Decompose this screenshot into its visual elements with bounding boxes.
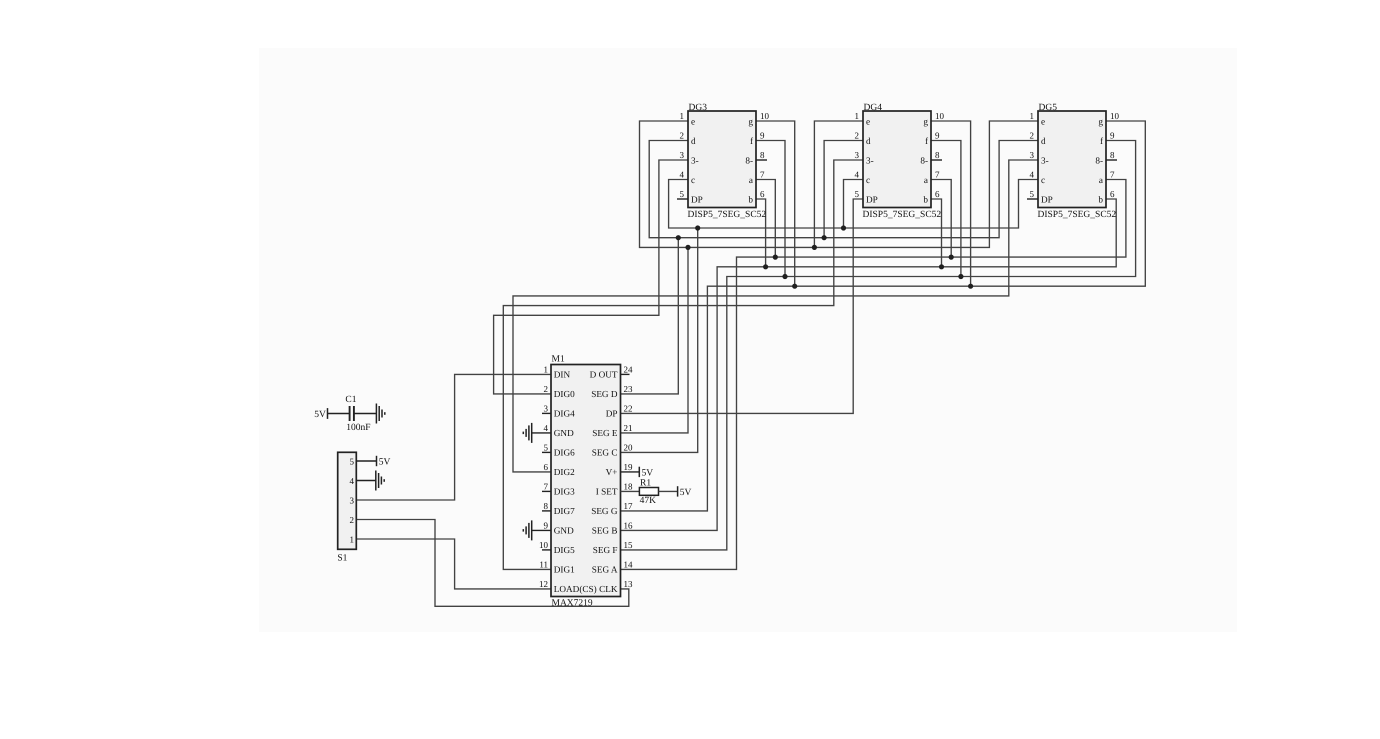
junction SEG F / DG3	[782, 274, 787, 279]
svg-text:I SET: I SET	[596, 487, 618, 497]
DG3 pin 9 (f)	[750, 130, 765, 146]
svg-text:100nF: 100nF	[346, 423, 370, 433]
svg-text:c: c	[1041, 175, 1045, 185]
svg-text:4: 4	[350, 476, 355, 486]
ground at M1 pin 9	[523, 520, 531, 540]
svg-text:DG3: DG3	[689, 103, 708, 113]
svg-text:3-: 3-	[691, 155, 699, 165]
DG4 pin 4 (c)	[855, 169, 871, 185]
svg-text:DG4: DG4	[864, 103, 883, 113]
DG3 pin 8 (8-)	[745, 150, 767, 166]
svg-text:g: g	[923, 116, 928, 126]
junction SEG F / DG4	[958, 274, 963, 279]
DG4 pin 3 (3-)	[855, 150, 874, 166]
svg-text:1: 1	[350, 534, 355, 544]
junction SEG B / DG3	[763, 264, 768, 269]
svg-text:d: d	[691, 136, 696, 146]
wire net SEG A branch to DG3 a	[756, 180, 775, 258]
svg-text:4: 4	[855, 169, 860, 179]
display DG5 DISP5_7SEG_SC52 body	[1038, 111, 1106, 208]
DG4 pin 9 (f)	[925, 130, 940, 146]
svg-text:3-: 3-	[1041, 155, 1049, 165]
wire net SEG D branch to DG4 d	[824, 141, 863, 238]
M1 pin 15 (SEG F)	[593, 540, 633, 555]
DG5 pin 4 (c)	[1030, 169, 1046, 185]
svg-text:16: 16	[624, 520, 634, 530]
svg-text:5: 5	[544, 442, 549, 452]
svg-text:SEG A: SEG A	[592, 565, 618, 575]
svg-text:3: 3	[350, 495, 355, 505]
wire net SEG F main (M1 pin15 to DG5 f)	[621, 141, 1136, 550]
wire M1 pin 4 to ground	[532, 432, 551, 434]
svg-text:19: 19	[624, 462, 634, 472]
svg-text:3: 3	[680, 150, 685, 160]
svg-text:7: 7	[760, 169, 765, 179]
M1 pin 1 (DIN)	[544, 364, 571, 379]
svg-text:d: d	[1041, 136, 1046, 146]
wire M1 pin 9 to ground	[532, 529, 551, 531]
svg-text:c: c	[691, 175, 695, 185]
M1 pin 18 (I SET)	[596, 481, 633, 496]
svg-text:R1: R1	[640, 478, 651, 488]
wire net SEG B main (M1 pin16 to DG5 b)	[621, 199, 1117, 530]
M1 pin 17 (SEG G)	[591, 501, 633, 516]
svg-text:a: a	[749, 175, 753, 185]
svg-text:GND: GND	[554, 526, 574, 536]
DG3 pin 6 (b)	[748, 189, 765, 205]
display DG4 DISP5_7SEG_SC52 body	[863, 111, 931, 208]
svg-text:SEG E: SEG E	[592, 428, 618, 438]
junction SEG G / DG4	[968, 284, 973, 289]
svg-text:a: a	[924, 175, 928, 185]
power 5V at C1	[314, 408, 327, 420]
svg-text:DP: DP	[691, 194, 703, 204]
junction SEG E / M1	[685, 245, 690, 250]
DG4 pin 8 (8-)	[920, 150, 942, 166]
svg-text:CLK: CLK	[599, 584, 618, 594]
DG3 pin 5 (DP)	[677, 189, 703, 205]
svg-text:DIG5: DIG5	[554, 545, 575, 555]
svg-text:D OUT: D OUT	[590, 370, 618, 380]
junction SEG A / DG3	[773, 255, 778, 260]
DG4 pin 6 (b)	[923, 189, 940, 205]
wire R1 to 5V	[659, 490, 678, 492]
M1 pin 7 (DIG3)	[542, 481, 575, 496]
svg-text:DG5: DG5	[1039, 103, 1058, 113]
svg-text:g: g	[748, 116, 753, 126]
svg-text:7: 7	[544, 481, 549, 491]
svg-text:5V: 5V	[680, 488, 692, 498]
svg-text:DIG2: DIG2	[554, 467, 575, 477]
wire net DIN (S1 pin3 to M1 pin1)	[356, 374, 551, 500]
svg-text:8-: 8-	[745, 155, 753, 165]
junction SEG C / M1	[695, 225, 700, 230]
S1 pin 3	[350, 495, 355, 505]
svg-text:DP: DP	[1041, 194, 1053, 204]
wire net DIG0 (M1 pin2 to DG3 pin3)	[494, 160, 688, 394]
svg-text:3: 3	[855, 150, 860, 160]
svg-text:21: 21	[624, 423, 633, 433]
connector S1 body	[338, 452, 357, 549]
svg-text:DP: DP	[866, 194, 878, 204]
wire M1 pin18 to R1	[621, 490, 640, 492]
svg-text:C1: C1	[345, 395, 356, 405]
M1 pin 23 (SEG D)	[591, 384, 633, 399]
M1 pin 2 (DIG0)	[544, 384, 576, 399]
svg-text:V+: V+	[606, 467, 618, 477]
power 5V at S1 pin 5	[377, 456, 391, 468]
IC M1 MAX7219 body	[551, 365, 621, 597]
svg-text:DIG6: DIG6	[554, 448, 575, 458]
wire net SEG G branch to DG4 g	[931, 121, 971, 286]
svg-text:6: 6	[760, 189, 765, 199]
ground at C1	[376, 404, 384, 424]
svg-text:24: 24	[624, 364, 634, 374]
wire net SEG E main (DG3 e to DG5 e)	[640, 121, 1039, 247]
resistor R1	[639, 478, 658, 506]
M1 pin 10 (DIG5)	[539, 540, 575, 555]
svg-text:4: 4	[544, 423, 549, 433]
wire net LOAD (S1 pin1 to M1 pin12)	[356, 539, 551, 589]
DG3 pin 3 (3-)	[680, 150, 699, 166]
DG4 pin 2 (d)	[855, 130, 872, 146]
svg-text:LOAD(CS): LOAD(CS)	[554, 584, 597, 594]
svg-text:1: 1	[1030, 111, 1035, 121]
svg-text:SEG C: SEG C	[592, 448, 618, 458]
DG3 pin 2 (d)	[680, 130, 697, 146]
wire net SEG A branch to DG4 a	[931, 180, 951, 258]
svg-text:DIG4: DIG4	[554, 409, 575, 419]
svg-text:5V: 5V	[314, 410, 326, 420]
ground at M1 pin 4	[523, 423, 531, 443]
svg-text:b: b	[1098, 194, 1103, 204]
M1 pin 5 (DIG6)	[542, 442, 575, 457]
ground at S1 pin 4	[376, 471, 384, 491]
svg-text:DIN: DIN	[554, 370, 571, 380]
DG3 pin 4 (c)	[680, 169, 696, 185]
wire net CLK (S1 pin2 to M1 pin13)	[356, 520, 629, 607]
svg-text:5: 5	[1030, 189, 1035, 199]
svg-text:4: 4	[1030, 169, 1035, 179]
svg-text:SEG B: SEG B	[592, 526, 618, 536]
svg-text:6: 6	[1110, 189, 1115, 199]
junction SEG G / DG3	[792, 284, 797, 289]
wire net SEG G branch to DG3 g	[756, 121, 795, 286]
wire 5V to C1	[328, 413, 350, 415]
M1 pin 24 (D OUT)	[590, 364, 633, 379]
svg-text:18: 18	[624, 481, 634, 491]
M1 pin 8 (DIG7)	[542, 501, 575, 516]
svg-text:g: g	[1098, 116, 1103, 126]
wire net SEG A main (M1 pin14 to DG5 a)	[621, 180, 1126, 570]
schematic canvas	[259, 48, 1237, 632]
svg-text:10: 10	[935, 111, 945, 121]
wire net DP (M1 pin22 to DG4 DP)	[621, 199, 864, 413]
power 5V at M1 pin 19	[639, 467, 653, 479]
wire net SEG E branch from M1 pin21	[621, 247, 689, 433]
M1 pin 14 (SEG A)	[592, 559, 633, 574]
svg-text:e: e	[1041, 116, 1045, 126]
M1 pin 4 (GND)	[544, 423, 575, 438]
svg-text:b: b	[748, 194, 753, 204]
wire net SEG G main (M1 pin17 to DG5 g)	[621, 121, 1146, 511]
svg-text:d: d	[866, 136, 871, 146]
svg-text:b: b	[923, 194, 928, 204]
svg-text:5: 5	[680, 189, 685, 199]
svg-text:2: 2	[855, 130, 860, 140]
svg-text:e: e	[866, 116, 870, 126]
M1 pin 3 (DIG4)	[542, 403, 575, 418]
svg-text:M1: M1	[552, 355, 565, 365]
wire M1 pin19 V+ to 5V	[621, 471, 640, 473]
svg-text:1: 1	[680, 111, 685, 121]
wire net SEG B branch to DG3 b	[756, 199, 766, 267]
svg-text:a: a	[1099, 175, 1103, 185]
svg-text:2: 2	[1030, 130, 1035, 140]
svg-text:9: 9	[935, 130, 940, 140]
M1 pin 16 (SEG B)	[592, 520, 633, 535]
M1 pin 21 (SEG E)	[592, 423, 632, 438]
DG4 pin 10 (g)	[923, 111, 944, 127]
wire C1 to ground	[354, 413, 377, 415]
svg-text:DISP5_7SEG_SC52: DISP5_7SEG_SC52	[863, 210, 942, 220]
svg-text:20: 20	[624, 442, 634, 452]
svg-text:DISP5_7SEG_SC52: DISP5_7SEG_SC52	[1038, 210, 1117, 220]
svg-text:47K: 47K	[640, 496, 657, 506]
svg-text:SEG F: SEG F	[593, 545, 618, 555]
DG5 pin 5 (DP)	[1027, 189, 1053, 205]
svg-text:1: 1	[855, 111, 860, 121]
DG3 pin 1 (e)	[680, 111, 696, 127]
M1 pin 13 (CLK)	[599, 579, 633, 594]
svg-text:GND: GND	[554, 428, 574, 438]
svg-text:8-: 8-	[1095, 155, 1103, 165]
svg-text:2: 2	[544, 384, 549, 394]
svg-text:8: 8	[760, 150, 765, 160]
svg-text:17: 17	[624, 501, 634, 511]
svg-text:15: 15	[624, 540, 634, 550]
S1 pin 5	[350, 456, 355, 466]
wire net SEG F branch to DG4 f	[931, 141, 961, 277]
svg-text:10: 10	[760, 111, 770, 121]
DG4 pin 1 (e)	[855, 111, 871, 127]
wire net SEG D main (DG3 d to DG5 d)	[649, 141, 1038, 238]
M1 pin 12 (LOAD(CS))	[539, 579, 597, 594]
capacitor C1	[345, 395, 370, 433]
svg-text:10: 10	[1110, 111, 1120, 121]
junction SEG A / DG4	[949, 255, 954, 260]
DG5 pin 8 (8-)	[1095, 150, 1117, 166]
svg-text:2: 2	[680, 130, 685, 140]
svg-text:3: 3	[544, 403, 549, 413]
DG5 pin 7 (a)	[1099, 169, 1115, 185]
svg-text:SEG G: SEG G	[591, 506, 618, 516]
svg-text:8: 8	[1110, 150, 1115, 160]
wire net SEG C branch to DG4 c	[844, 180, 864, 229]
svg-text:9: 9	[760, 130, 765, 140]
DG5 pin 1 (e)	[1030, 111, 1046, 127]
wire S1 pin5 to 5V	[356, 460, 376, 462]
DG5 pin 6 (b)	[1098, 189, 1115, 205]
svg-text:7: 7	[1110, 169, 1115, 179]
M1 pin 19 (V+)	[606, 462, 633, 477]
svg-text:3: 3	[1030, 150, 1035, 160]
DG5 pin 10 (g)	[1098, 111, 1119, 127]
wire net DIG1 (M1 pin11 to DG4 pin3)	[503, 160, 863, 569]
junction SEG D / M1	[676, 235, 681, 240]
junction SEG E / DG4	[812, 245, 817, 250]
svg-text:9: 9	[544, 520, 549, 530]
svg-text:e: e	[691, 116, 695, 126]
svg-text:8-: 8-	[920, 155, 928, 165]
svg-text:DIG7: DIG7	[554, 506, 575, 516]
wire net SEG B branch to DG4 b	[931, 199, 942, 267]
wire net SEG E branch to DG4 e	[814, 121, 863, 247]
DG4 pin 7 (a)	[924, 169, 940, 185]
M1 pin 22 (DP)	[606, 403, 633, 418]
svg-text:S1: S1	[337, 554, 347, 564]
M1 pin 20 (SEG C)	[592, 442, 633, 457]
wire S1 pin4 to ground	[356, 480, 376, 482]
junction SEG D / DG4	[822, 235, 827, 240]
M1 pin 6 (DIG2)	[544, 462, 576, 477]
DG3 pin 10 (g)	[748, 111, 769, 127]
svg-text:DIG3: DIG3	[554, 487, 575, 497]
power 5V at R1	[678, 486, 692, 498]
svg-text:8: 8	[935, 150, 940, 160]
DG4 pin 5 (DP)	[855, 189, 878, 205]
svg-text:DP: DP	[606, 409, 618, 419]
svg-text:5V: 5V	[379, 458, 391, 468]
svg-text:23: 23	[624, 384, 634, 394]
S1 pin 4	[350, 476, 355, 486]
DG5 pin 9 (f)	[1100, 130, 1115, 146]
svg-text:DIG0: DIG0	[554, 389, 575, 399]
junction SEG B / DG4	[939, 264, 944, 269]
svg-text:3-: 3-	[866, 155, 874, 165]
M1 pin 9 (GND)	[544, 520, 575, 535]
DG5 pin 3 (3-)	[1030, 150, 1049, 166]
svg-text:c: c	[866, 175, 870, 185]
svg-text:7: 7	[935, 169, 940, 179]
S1 pin 1	[350, 534, 355, 544]
svg-text:9: 9	[1110, 130, 1115, 140]
wire net SEG D branch from M1 pin23	[621, 238, 679, 394]
svg-text:4: 4	[680, 169, 685, 179]
svg-text:DISP5_7SEG_SC52: DISP5_7SEG_SC52	[688, 210, 767, 220]
svg-text:13: 13	[624, 579, 634, 589]
wire net DIG2 (M1 pin6 to DG5 pin3)	[513, 160, 1038, 472]
wire net SEG C branch from M1 pin20	[621, 228, 698, 452]
svg-text:SEG D: SEG D	[591, 389, 618, 399]
svg-text:6: 6	[935, 189, 940, 199]
junction SEG C / DG4	[841, 225, 846, 230]
svg-text:5: 5	[855, 189, 860, 199]
svg-text:8: 8	[544, 501, 549, 511]
svg-text:10: 10	[539, 540, 549, 550]
S1 pin 2	[350, 515, 355, 525]
svg-text:6: 6	[544, 462, 549, 472]
wire net SEG C main (DG3 c to DG5 c)	[669, 180, 1038, 229]
M1 pin 11 (DIG1)	[539, 559, 575, 574]
display DG3 DISP5_7SEG_SC52 body	[688, 111, 756, 208]
DG5 pin 2 (d)	[1030, 130, 1047, 146]
svg-text:22: 22	[624, 403, 633, 413]
DG3 pin 7 (a)	[749, 169, 765, 185]
svg-text:DIG1: DIG1	[554, 565, 575, 575]
svg-text:14: 14	[624, 559, 634, 569]
svg-text:12: 12	[539, 579, 548, 589]
svg-text:11: 11	[539, 559, 548, 569]
svg-text:2: 2	[350, 515, 355, 525]
svg-text:5V: 5V	[642, 469, 654, 479]
wire net SEG F branch to DG3 f	[756, 141, 785, 277]
svg-text:MAX7219: MAX7219	[552, 598, 593, 608]
svg-text:5: 5	[350, 456, 355, 466]
svg-text:1: 1	[544, 364, 549, 374]
